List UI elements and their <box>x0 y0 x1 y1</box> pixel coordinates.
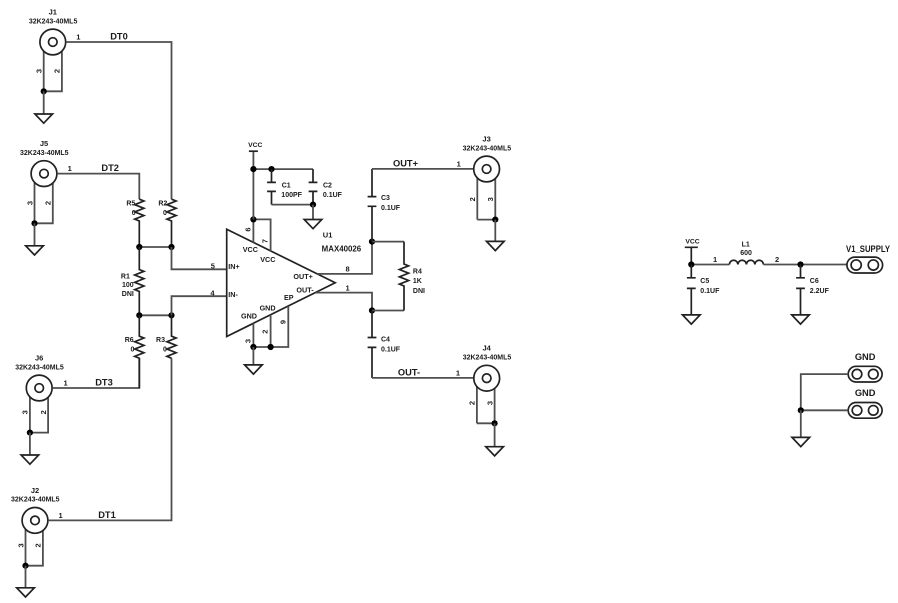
svg-text:1: 1 <box>64 378 68 387</box>
svg-text:9: 9 <box>278 320 287 324</box>
junction J6 pins 2-3 <box>27 430 33 436</box>
svg-text:3: 3 <box>25 201 34 205</box>
resistor R5 0 <box>126 199 144 247</box>
junction pin 2 gnd <box>268 344 274 350</box>
svg-text:32K243-40ML5: 32K243-40ML5 <box>463 145 512 152</box>
ground below C5 <box>683 315 701 324</box>
svg-text:GND: GND <box>855 352 876 362</box>
svg-text:1: 1 <box>457 159 461 168</box>
svg-text:DNI: DNI <box>413 288 425 295</box>
svg-text:DT2: DT2 <box>101 163 119 173</box>
svg-text:0: 0 <box>163 347 167 354</box>
ground below J4 <box>486 423 504 456</box>
svg-text:0: 0 <box>163 210 167 217</box>
svg-text:1: 1 <box>713 255 717 264</box>
svg-text:8: 8 <box>346 265 350 274</box>
resistor R3 0 <box>156 315 176 358</box>
svg-text:C2: C2 <box>323 182 332 189</box>
svg-text:J4: J4 <box>483 344 492 353</box>
svg-text:J2: J2 <box>31 486 39 495</box>
svg-text:100: 100 <box>122 282 134 289</box>
svg-text:32K243-40ML5: 32K243-40ML5 <box>15 364 64 371</box>
svg-text:C4: C4 <box>381 337 390 344</box>
svg-text:2: 2 <box>261 330 270 334</box>
resistor R1 100 DNI <box>121 247 144 315</box>
svg-text:100PF: 100PF <box>281 192 302 199</box>
connector GND header 1 <box>848 352 882 382</box>
svg-text:1K: 1K <box>413 278 422 285</box>
wire L1 pin 2 to V1_SUPPLY <box>763 264 847 266</box>
svg-text:R2: R2 <box>158 201 167 208</box>
svg-text:3: 3 <box>485 401 494 405</box>
junction pin 3 gnd <box>250 344 256 350</box>
ground below J1 <box>35 91 53 123</box>
capacitor C3 0.1UF <box>368 169 401 242</box>
svg-text:DT3: DT3 <box>95 378 113 388</box>
svg-text:IN+: IN+ <box>228 262 239 271</box>
ground below GND headers <box>792 410 810 446</box>
ground below C2 <box>304 205 322 229</box>
junction J2 pins 2-3 <box>22 563 28 569</box>
wire net OUT- to J4 <box>372 377 473 379</box>
svg-text:1: 1 <box>456 369 460 378</box>
svg-text:J6: J6 <box>35 353 43 362</box>
svg-text:0.1UF: 0.1UF <box>381 205 401 212</box>
svg-text:R1: R1 <box>121 273 130 280</box>
junction OUT-/C4/R4 <box>369 307 375 313</box>
svg-text:600: 600 <box>740 250 752 257</box>
junction R3/IN- node <box>168 312 174 318</box>
svg-text:C3: C3 <box>381 195 390 202</box>
svg-text:0: 0 <box>130 347 134 354</box>
wire net DT3 from J6 pin 1 <box>53 358 140 388</box>
capacitor C5 0.1UF <box>687 265 720 315</box>
svg-text:3: 3 <box>21 410 30 414</box>
svg-text:6: 6 <box>243 227 252 231</box>
svg-text:2: 2 <box>468 401 477 405</box>
wire U1 pin 6 VCC <box>252 219 254 242</box>
svg-text:OUT+: OUT+ <box>293 272 312 281</box>
svg-text:J1: J1 <box>49 7 57 16</box>
svg-text:EP: EP <box>284 293 294 302</box>
wire net OUT+ to J3 <box>372 168 473 170</box>
svg-text:7: 7 <box>261 239 270 243</box>
svg-text:1: 1 <box>68 164 72 173</box>
capacitor C1 100PF <box>267 169 303 205</box>
svg-text:0.1UF: 0.1UF <box>323 192 343 199</box>
svg-text:L1: L1 <box>742 241 750 248</box>
power symbol VCC at U1 <box>249 150 258 152</box>
wire OUT+ to R4 <box>372 241 404 243</box>
svg-text:R3: R3 <box>156 337 165 344</box>
svg-text:OUT-: OUT- <box>296 285 314 294</box>
svg-text:0.1UF: 0.1UF <box>700 288 720 295</box>
svg-text:32K243-40ML5: 32K243-40ML5 <box>29 18 78 25</box>
svg-text:2: 2 <box>44 201 53 205</box>
svg-text:2: 2 <box>468 197 477 201</box>
resistor R4 1K DNI <box>399 242 425 311</box>
junction VCC/C5 <box>688 261 694 267</box>
svg-text:32K243-40ML5: 32K243-40ML5 <box>11 497 60 504</box>
svg-text:1: 1 <box>76 32 80 41</box>
svg-text:OUT-: OUT- <box>398 367 420 377</box>
svg-text:3: 3 <box>486 197 495 201</box>
wire C1 bottom to C2 bottom <box>272 204 314 206</box>
svg-text:DT1: DT1 <box>98 510 116 520</box>
capacitor C2 0.1UF <box>309 169 343 205</box>
svg-text:32K243-40ML5: 32K243-40ML5 <box>463 355 512 362</box>
inductor L1 600 ferrite bead <box>729 241 763 264</box>
junction pins 6-7 <box>250 216 256 222</box>
svg-text:2: 2 <box>39 410 48 414</box>
svg-text:IN-: IN- <box>228 290 238 299</box>
svg-text:MAX40026: MAX40026 <box>322 244 362 253</box>
junction J3 pins 2-3 <box>492 217 498 223</box>
wire junction row IN+ <box>139 246 171 248</box>
wire GND header 2 to gnd <box>801 409 848 411</box>
svg-text:0: 0 <box>132 210 136 217</box>
svg-text:1: 1 <box>346 283 350 292</box>
wire VCC to L1 pin 1 <box>691 264 729 266</box>
junction GND headers <box>798 407 804 413</box>
svg-text:0.1UF: 0.1UF <box>381 346 401 353</box>
svg-text:R6: R6 <box>125 337 134 344</box>
junction R5/R1 node <box>136 244 142 250</box>
wire U1 pin 1 OUT- <box>316 293 372 311</box>
svg-text:VCC: VCC <box>685 239 699 246</box>
junction R2/IN+ node <box>168 244 174 250</box>
wire to U1 pin 5 IN+ <box>172 247 227 269</box>
svg-text:2: 2 <box>34 543 43 547</box>
wire net DT2 from J5 pin 1 <box>57 174 139 200</box>
connector J3 (SMA 32K243-40ML5) <box>457 134 512 219</box>
ground below U1 <box>245 347 263 374</box>
wire GND header 1 to gnd <box>801 374 848 410</box>
svg-text:2: 2 <box>775 255 779 264</box>
junction J1 pins 2-3 <box>41 88 47 94</box>
wire VCC rail to U1 <box>252 151 254 219</box>
wire to U1 pin 4 IN- <box>172 296 227 315</box>
svg-text:OUT+: OUT+ <box>393 158 419 168</box>
junction C6/V1_SUPPLY <box>797 261 803 267</box>
ground below J2 <box>17 566 35 597</box>
capacitor C6 2.2UF <box>796 265 829 315</box>
wire VCC to bypass caps <box>253 168 313 170</box>
wire U1 pin 9 EP <box>271 306 289 347</box>
junction R1/R6 node <box>136 312 142 318</box>
svg-text:VCC: VCC <box>243 245 258 254</box>
capacitor C4 0.1UF <box>368 311 401 378</box>
svg-text:C5: C5 <box>700 278 709 285</box>
junction C1 top <box>268 166 274 172</box>
connector J5 (SMA 32K243-40ML5) <box>20 139 72 223</box>
svg-text:GND: GND <box>855 388 876 398</box>
connector J4 (SMA 32K243-40ML5) <box>456 344 511 424</box>
wire U1 pin 8 OUT+ <box>317 242 372 274</box>
junction J5 pins 2-3 <box>31 220 37 226</box>
svg-text:U1: U1 <box>323 230 333 239</box>
junction VCC/C1 rail <box>250 166 256 172</box>
junction J4 pins 2-3 <box>492 420 498 426</box>
connector J6 (SMA 32K243-40ML5) <box>15 353 67 432</box>
ground below J6 <box>21 433 39 465</box>
junction OUT+/C3/R4 <box>369 239 375 245</box>
svg-text:VCC: VCC <box>260 255 275 264</box>
connector J2 (SMA 32K243-40ML5) <box>11 486 63 566</box>
svg-text:3: 3 <box>35 69 44 73</box>
svg-text:3: 3 <box>243 339 252 343</box>
svg-text:DT0: DT0 <box>110 31 128 41</box>
ground below J3 <box>487 220 505 251</box>
wire net DT0 from J1 pin 1 <box>66 42 171 199</box>
svg-text:3: 3 <box>16 543 25 547</box>
wire U1 pin 7 VCC <box>253 219 270 251</box>
svg-text:DNI: DNI <box>122 291 134 298</box>
op-amp comparator U1 MAX40026 <box>227 229 336 336</box>
power symbol VCC supply <box>685 247 698 264</box>
junction C2 bottom <box>310 202 316 208</box>
wire R4 to OUT- <box>372 310 404 312</box>
svg-text:1: 1 <box>59 511 63 520</box>
svg-text:5: 5 <box>211 261 215 270</box>
resistor R2 0 <box>158 199 176 247</box>
svg-text:V1_SUPPLY: V1_SUPPLY <box>846 244 891 254</box>
wire pin3-pin2 join <box>253 346 270 348</box>
svg-text:C6: C6 <box>810 278 819 285</box>
wire U1 pin 3 GND <box>252 323 254 347</box>
svg-text:R4: R4 <box>413 269 422 276</box>
svg-text:2.2UF: 2.2UF <box>810 288 830 295</box>
ground below C6 <box>792 315 810 324</box>
connector J1 (SMA 32K243-40ML5) <box>29 7 81 91</box>
ground below J5 <box>26 223 44 255</box>
wire junction row IN- <box>139 314 171 316</box>
wire U1 pin 2 GND <box>270 315 272 347</box>
connector V1_SUPPLY header <box>846 244 891 273</box>
svg-text:GND: GND <box>241 311 257 320</box>
resistor R6 0 <box>125 315 144 388</box>
connector GND header 2 <box>848 388 882 418</box>
svg-text:C1: C1 <box>282 182 291 189</box>
wire net DT1 from J2 pin 1 <box>48 358 171 520</box>
svg-text:R5: R5 <box>126 201 135 208</box>
svg-text:GND: GND <box>260 304 276 313</box>
svg-text:J5: J5 <box>40 139 48 148</box>
svg-text:32K243-40ML5: 32K243-40ML5 <box>20 150 69 157</box>
svg-text:J3: J3 <box>482 134 490 143</box>
svg-text:2: 2 <box>53 69 62 73</box>
svg-text:VCC: VCC <box>248 142 262 149</box>
